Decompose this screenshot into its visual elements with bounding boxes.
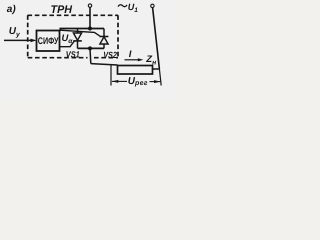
dashed box TPH top edge — [28, 14, 119, 16]
thyristor VS2 cathode lead — [103, 29, 105, 37]
wire Uy input arrow — [4, 39, 32, 41]
wire bottom bus — [78, 47, 105, 49]
thyristor VS2 triangle — [100, 37, 108, 44]
dashed box TPH left edge — [27, 15, 29, 57]
dimension arrow left — [112, 80, 127, 82]
terminal right supply — [151, 4, 154, 7]
paper background — [0, 0, 175, 102]
svg-text:VS2: VS2 — [103, 50, 117, 60]
resistor Zn load box — [118, 66, 153, 75]
thyristor VS2 anode lead — [103, 44, 105, 48]
dimension arrow right — [150, 81, 161, 83]
thyristor VS1 triangle — [73, 33, 81, 40]
wire current arrow — [125, 59, 140, 61]
wire load to right leg — [153, 68, 160, 70]
svg-text:I: I — [129, 49, 132, 60]
wire right supply leg — [153, 8, 160, 69]
node junction top bus — [88, 27, 92, 31]
block SIFU — [37, 31, 60, 52]
svg-text:ТРН: ТРН — [51, 4, 74, 16]
svg-text:а): а) — [7, 4, 17, 15]
wire bus hook to SIFU corner — [59, 28, 61, 31]
dashed box TPH bottom edge — [28, 57, 88, 59]
svg-text:СИФУ: СИФУ — [38, 36, 59, 47]
thyristor VS1 cathode lead — [77, 41, 79, 49]
dashed box TPH right edge — [117, 15, 119, 57]
svg-text:VS1: VS1 — [66, 49, 80, 59]
wire supply drop from terminal — [89, 7, 91, 29]
terminal left supply — [88, 4, 91, 7]
wire to load — [91, 64, 118, 65]
wire output drop — [89, 48, 92, 63]
thyristor VS2 cathode bar — [100, 36, 109, 38]
thyristor VS1 cathode bar — [73, 40, 82, 42]
node junction bottom bus — [88, 46, 92, 50]
wire VS1 gate — [60, 41, 75, 46]
label ~U1 — [118, 5, 127, 7]
wire top bus — [60, 28, 105, 30]
extension tick right — [159, 69, 161, 86]
extension tick left — [110, 65, 112, 86]
wire VS2 gate from SIFU — [60, 30, 100, 36]
thyristor VS1 anode lead — [77, 29, 79, 34]
